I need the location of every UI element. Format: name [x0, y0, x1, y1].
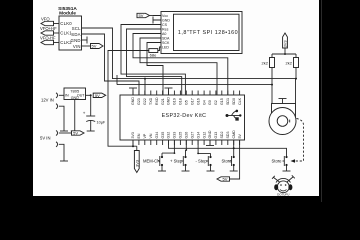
- svg-text:G32: G32: [167, 132, 171, 139]
- junction encoder B: [295, 78, 297, 80]
- svg-text:Module: Module: [59, 11, 76, 17]
- wire TFT A0 net: [133, 34, 228, 96]
- wire 3V3 pin down to LED net: [132, 140, 134, 146]
- capacitor C1 10uF electrolytic: [90, 95, 92, 116]
- svg-text:DO7UFU: DO7UFU: [277, 193, 289, 197]
- net flag 5V bottom: [217, 177, 230, 181]
- TFT pin stubs: [153, 16, 161, 43]
- svg-text:G5: G5: [185, 100, 189, 105]
- svg-text:G27: G27: [190, 132, 194, 139]
- wire TFT SCK net: [147, 43, 163, 96]
- svg-text:SCK: SCK: [162, 41, 170, 45]
- logo ham smiley: [272, 175, 295, 192]
- ESP32 bottom pin stubs: [133, 140, 240, 145]
- svg-text:Store: Store: [272, 159, 283, 164]
- ground at capacitor: [87, 130, 95, 132]
- svg-text:G2: G2: [214, 100, 218, 105]
- svg-text:7805: 7805: [70, 88, 80, 93]
- svg-text:G22: G22: [143, 98, 147, 105]
- svg-text:- Step: - Step: [196, 159, 208, 164]
- svg-text:VP: VP: [143, 133, 147, 138]
- net flag 5V at TFT Vcc: [137, 13, 150, 17]
- svg-text:G14: G14: [196, 132, 200, 139]
- svg-text:+ Step: + Step: [170, 159, 183, 164]
- ground at 7805: [71, 130, 79, 132]
- svg-text:SD2: SD2: [220, 132, 224, 139]
- rotary encoder knob: [269, 108, 296, 135]
- svg-text:G17: G17: [190, 98, 194, 105]
- wire LED to 3V3 net: [108, 51, 149, 147]
- junction encoder A: [271, 84, 273, 86]
- svg-text:3V3: 3V3: [283, 40, 288, 48]
- ground at encoder common: [282, 99, 284, 104]
- svg-text:VFO-HF: VFO-HF: [40, 36, 56, 41]
- MCU board ESP32-Dev KitC box: [120, 95, 245, 140]
- svg-text:SD0: SD0: [232, 98, 236, 105]
- TFT display inner box (screen): [174, 14, 240, 50]
- svg-text:Vcc: Vcc: [162, 14, 168, 18]
- svg-text:TXD: TXD: [149, 97, 153, 105]
- svg-text:SDA: SDA: [71, 32, 80, 37]
- connector 5V IN pin 1: [56, 131, 58, 136]
- ground at TFT GND pin: [152, 17, 154, 24]
- svg-text:G12: G12: [202, 132, 206, 139]
- svg-text:RXD: RXD: [155, 97, 159, 105]
- ground at ESP32 top GND pin 7: [168, 89, 170, 96]
- connector 12V IN pin 2 (gnd): [56, 104, 58, 109]
- wire pullup bus: [272, 53, 296, 55]
- wire TFT CS net: [121, 25, 185, 96]
- svg-text:ESP32-Dev KitC: ESP32-Dev KitC: [162, 113, 207, 119]
- wire 7805 GND down: [74, 100, 76, 132]
- connector 5V IN pin 2 (gnd): [56, 142, 58, 147]
- svg-text:GND: GND: [167, 97, 171, 105]
- svg-text:5V IN: 5V IN: [40, 136, 50, 141]
- svg-text:12V IN: 12V IN: [41, 98, 54, 103]
- svg-text:LED: LED: [162, 46, 169, 50]
- wire 7805 OUT to 5V flag: [86, 94, 91, 96]
- svg-text:GND: GND: [71, 38, 81, 43]
- svg-text:G23: G23: [137, 98, 141, 105]
- svg-text:CLK0: CLK0: [60, 21, 72, 26]
- wire encoder B down: [295, 79, 297, 104]
- svg-text:A0: A0: [162, 32, 166, 36]
- net flag 5V at 7805 OUT: [93, 93, 106, 97]
- svg-text:Res: Res: [162, 28, 169, 32]
- wire SDA net SI5351 to G23: [82, 34, 140, 95]
- svg-text:2k2: 2k2: [262, 61, 269, 66]
- dashed mechanical link encoder to Store switch: [293, 119, 304, 162]
- svg-text:VFO: VFO: [41, 17, 50, 22]
- svg-text:10µF: 10µF: [97, 121, 106, 125]
- svg-text:G25: G25: [179, 132, 183, 139]
- ground at 5V connector: [60, 160, 68, 162]
- ground at SI5351 GND pin: [82, 39, 88, 41]
- IC U1 SI5351A module box: [59, 16, 82, 50]
- svg-text:G34: G34: [155, 132, 159, 139]
- svg-text:SD1: SD1: [226, 98, 230, 105]
- svg-text:G15: G15: [220, 98, 224, 105]
- wire -Step to G14: [198, 140, 210, 153]
- svg-text:GND: GND: [162, 19, 170, 23]
- wire encoder A line: [117, 75, 272, 85]
- svg-text:VIN: VIN: [73, 44, 81, 49]
- svg-text:CLK: CLK: [238, 97, 242, 105]
- connector 12V IN pin 1: [56, 93, 58, 98]
- net flag 5V at 5V IN: [72, 131, 85, 135]
- svg-text:G33: G33: [173, 132, 177, 139]
- wire TFT Res net: [127, 29, 182, 95]
- ground at ESP32 bottom GND pin: [209, 140, 211, 145]
- svg-text:SCL: SCL: [72, 26, 81, 31]
- ESP32 top pin stubs: [133, 91, 240, 96]
- rotary encoder body housing: [272, 104, 296, 119]
- svg-text:CMD: CMD: [232, 130, 236, 139]
- wire Store bus to encoder switch: [169, 140, 287, 153]
- net flag 3V3 vertical at ESP32: [136, 146, 138, 150]
- svg-text:IN: IN: [65, 94, 69, 98]
- svg-text:GND: GND: [208, 130, 212, 138]
- svg-text:5V: 5V: [95, 93, 100, 98]
- svg-text:G13: G13: [214, 132, 218, 139]
- svg-text:MEM-Ch: MEM-Ch: [143, 159, 160, 164]
- resistor R3 68e in LED line: [158, 47, 161, 51]
- svg-text:G19: G19: [173, 98, 177, 105]
- net flag 3V3 at pullups: [283, 33, 288, 48]
- svg-text:5V: 5V: [73, 131, 78, 136]
- svg-text:1,8"TFT SPI 128•160: 1,8"TFT SPI 128•160: [178, 30, 238, 36]
- svg-text:5V: 5V: [92, 44, 97, 49]
- svg-text:EN: EN: [137, 133, 141, 138]
- faint border line in right black bar: [321, 0, 323, 202]
- wire TFT SDA net: [140, 38, 217, 95]
- svg-text:G0: G0: [208, 100, 212, 105]
- svg-text:SD3: SD3: [226, 132, 230, 139]
- wire encoder A down: [271, 85, 273, 104]
- net flag 5V at VIN: [82, 45, 91, 47]
- svg-text:G21: G21: [161, 98, 165, 105]
- svg-text:5V: 5V: [139, 13, 144, 18]
- svg-text:3V3: 3V3: [131, 132, 135, 138]
- wire MEM-Ch to G33: [162, 140, 174, 153]
- USB connector icon: [226, 110, 242, 121]
- resistor R1 2k2: [271, 54, 273, 85]
- svg-text:5V: 5V: [238, 134, 242, 139]
- wire 5V pin to flag: [230, 140, 240, 179]
- regulator 7805 box: [64, 88, 86, 100]
- ground at ESP32 top GND pin 1: [132, 89, 134, 96]
- TFT display module outer box: [161, 12, 242, 54]
- svg-text:G26: G26: [185, 132, 189, 139]
- svg-text:G35: G35: [161, 132, 165, 139]
- wire SCL net SI5351 to G22 and encoder pullup: [82, 28, 297, 79]
- svg-text:SDA: SDA: [162, 37, 170, 41]
- svg-text:VFO+HF: VFO+HF: [40, 26, 57, 31]
- svg-text:3V3: 3V3: [134, 159, 139, 167]
- svg-text:G4: G4: [202, 100, 206, 105]
- svg-text:2k2: 2k2: [286, 61, 293, 66]
- svg-text:G16: G16: [196, 98, 200, 105]
- svg-text:+: +: [83, 111, 86, 116]
- svg-text:CS: CS: [162, 23, 168, 27]
- svg-text:VN: VN: [149, 133, 153, 138]
- svg-text:G18: G18: [179, 98, 183, 105]
- resistor R2 2k2: [295, 54, 297, 79]
- encoder detent mark: [289, 120, 291, 123]
- ground at 12V connector: [60, 130, 68, 132]
- svg-text:5V: 5V: [223, 177, 228, 182]
- ESP32 bottom pin labels: [131, 130, 242, 139]
- wire +Step to G26: [185, 140, 188, 150]
- ESP32 top pin labels: [131, 97, 242, 105]
- schematic white sheet: [33, 0, 319, 196]
- svg-text:68e: 68e: [150, 52, 157, 57]
- svg-text:GND: GND: [131, 97, 135, 105]
